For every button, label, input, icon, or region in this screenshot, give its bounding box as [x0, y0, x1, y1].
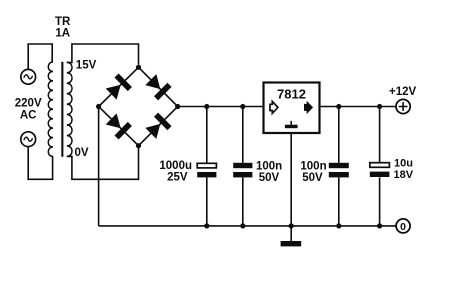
svg-text:50V: 50V	[302, 172, 323, 184]
wire mains top	[28, 44, 52, 69]
svg-text:1000u: 1000u	[159, 160, 192, 172]
capacitor C4 10u plates	[370, 163, 390, 168]
terminal +12V	[396, 99, 410, 113]
node dot C3 bottom	[336, 223, 341, 228]
node dot bridge bottom	[136, 143, 141, 148]
node dot C4 top	[377, 104, 382, 109]
transformer core	[61, 62, 63, 157]
regulator U1 7812 box	[264, 83, 320, 134]
svg-text:50V: 50V	[259, 172, 280, 184]
node dot C2 bottom	[240, 223, 245, 228]
diode D4 (bottom node to right node)	[144, 113, 171, 140]
svg-text:TR: TR	[55, 16, 71, 28]
regulator ground pin wire	[290, 133, 292, 226]
svg-text:1A: 1A	[55, 28, 70, 40]
regulator ground mark	[290, 121, 292, 125]
svg-text:10u: 10u	[394, 157, 413, 169]
svg-text:220V: 220V	[15, 98, 42, 110]
svg-text:0V: 0V	[75, 147, 89, 159]
node dot ground stub	[289, 223, 294, 228]
capacitor C4 wires	[379, 107, 381, 226]
capacitor C2 wires	[242, 107, 244, 226]
svg-text:0: 0	[400, 221, 406, 233]
svg-text:18V: 18V	[394, 169, 414, 181]
capacitor C2 100n plates	[233, 163, 252, 168]
wire secondary 0V to bridge bottom	[67, 146, 139, 180]
node dot C1 bottom	[204, 223, 209, 228]
bridge rectifier diamond	[99, 67, 178, 145]
svg-text:AC: AC	[20, 110, 37, 122]
regulator input arrow	[270, 101, 278, 113]
ground symbol	[290, 226, 292, 241]
diode D2 (top node to right node)	[144, 73, 171, 100]
AC source V1	[21, 69, 36, 84]
diode D3 (left node to bottom node)	[104, 112, 131, 139]
diode D1 (left node to top node)	[104, 73, 131, 100]
node dot C4 bottom	[377, 223, 382, 228]
wire secondary 15V to bridge top	[67, 44, 139, 65]
svg-text:+12V: +12V	[389, 86, 417, 98]
node dot bridge left	[96, 104, 101, 109]
node dot C2 top	[240, 104, 245, 109]
node dot C3 top	[336, 104, 341, 109]
wire bridge minus down	[98, 107, 100, 226]
wire mains bottom	[28, 147, 52, 180]
node dot bridge top	[136, 65, 141, 70]
terminal 0	[396, 219, 410, 233]
svg-text:100n: 100n	[256, 160, 282, 172]
wire DC plus rail right of regulator	[320, 106, 397, 108]
AC source V2	[21, 132, 36, 147]
regulator output arrow	[304, 101, 313, 114]
svg-text:7812: 7812	[277, 86, 306, 101]
transformer secondary winding	[67, 62, 72, 156]
wire ground rail	[99, 225, 397, 227]
capacitor C1 1000u plates	[197, 163, 216, 168]
svg-text:15V: 15V	[76, 59, 97, 71]
transformer TR primary winding	[48, 62, 53, 156]
capacitor C3 100n plates	[329, 163, 349, 168]
wire DC plus rail left of regulator	[178, 106, 264, 108]
capacitor C1 wires	[206, 107, 208, 226]
capacitor C3 wires	[338, 107, 340, 226]
node dot bridge right	[175, 104, 180, 109]
svg-text:100n: 100n	[300, 160, 326, 172]
node dot C1 top	[204, 104, 209, 109]
svg-text:25V: 25V	[167, 172, 188, 184]
